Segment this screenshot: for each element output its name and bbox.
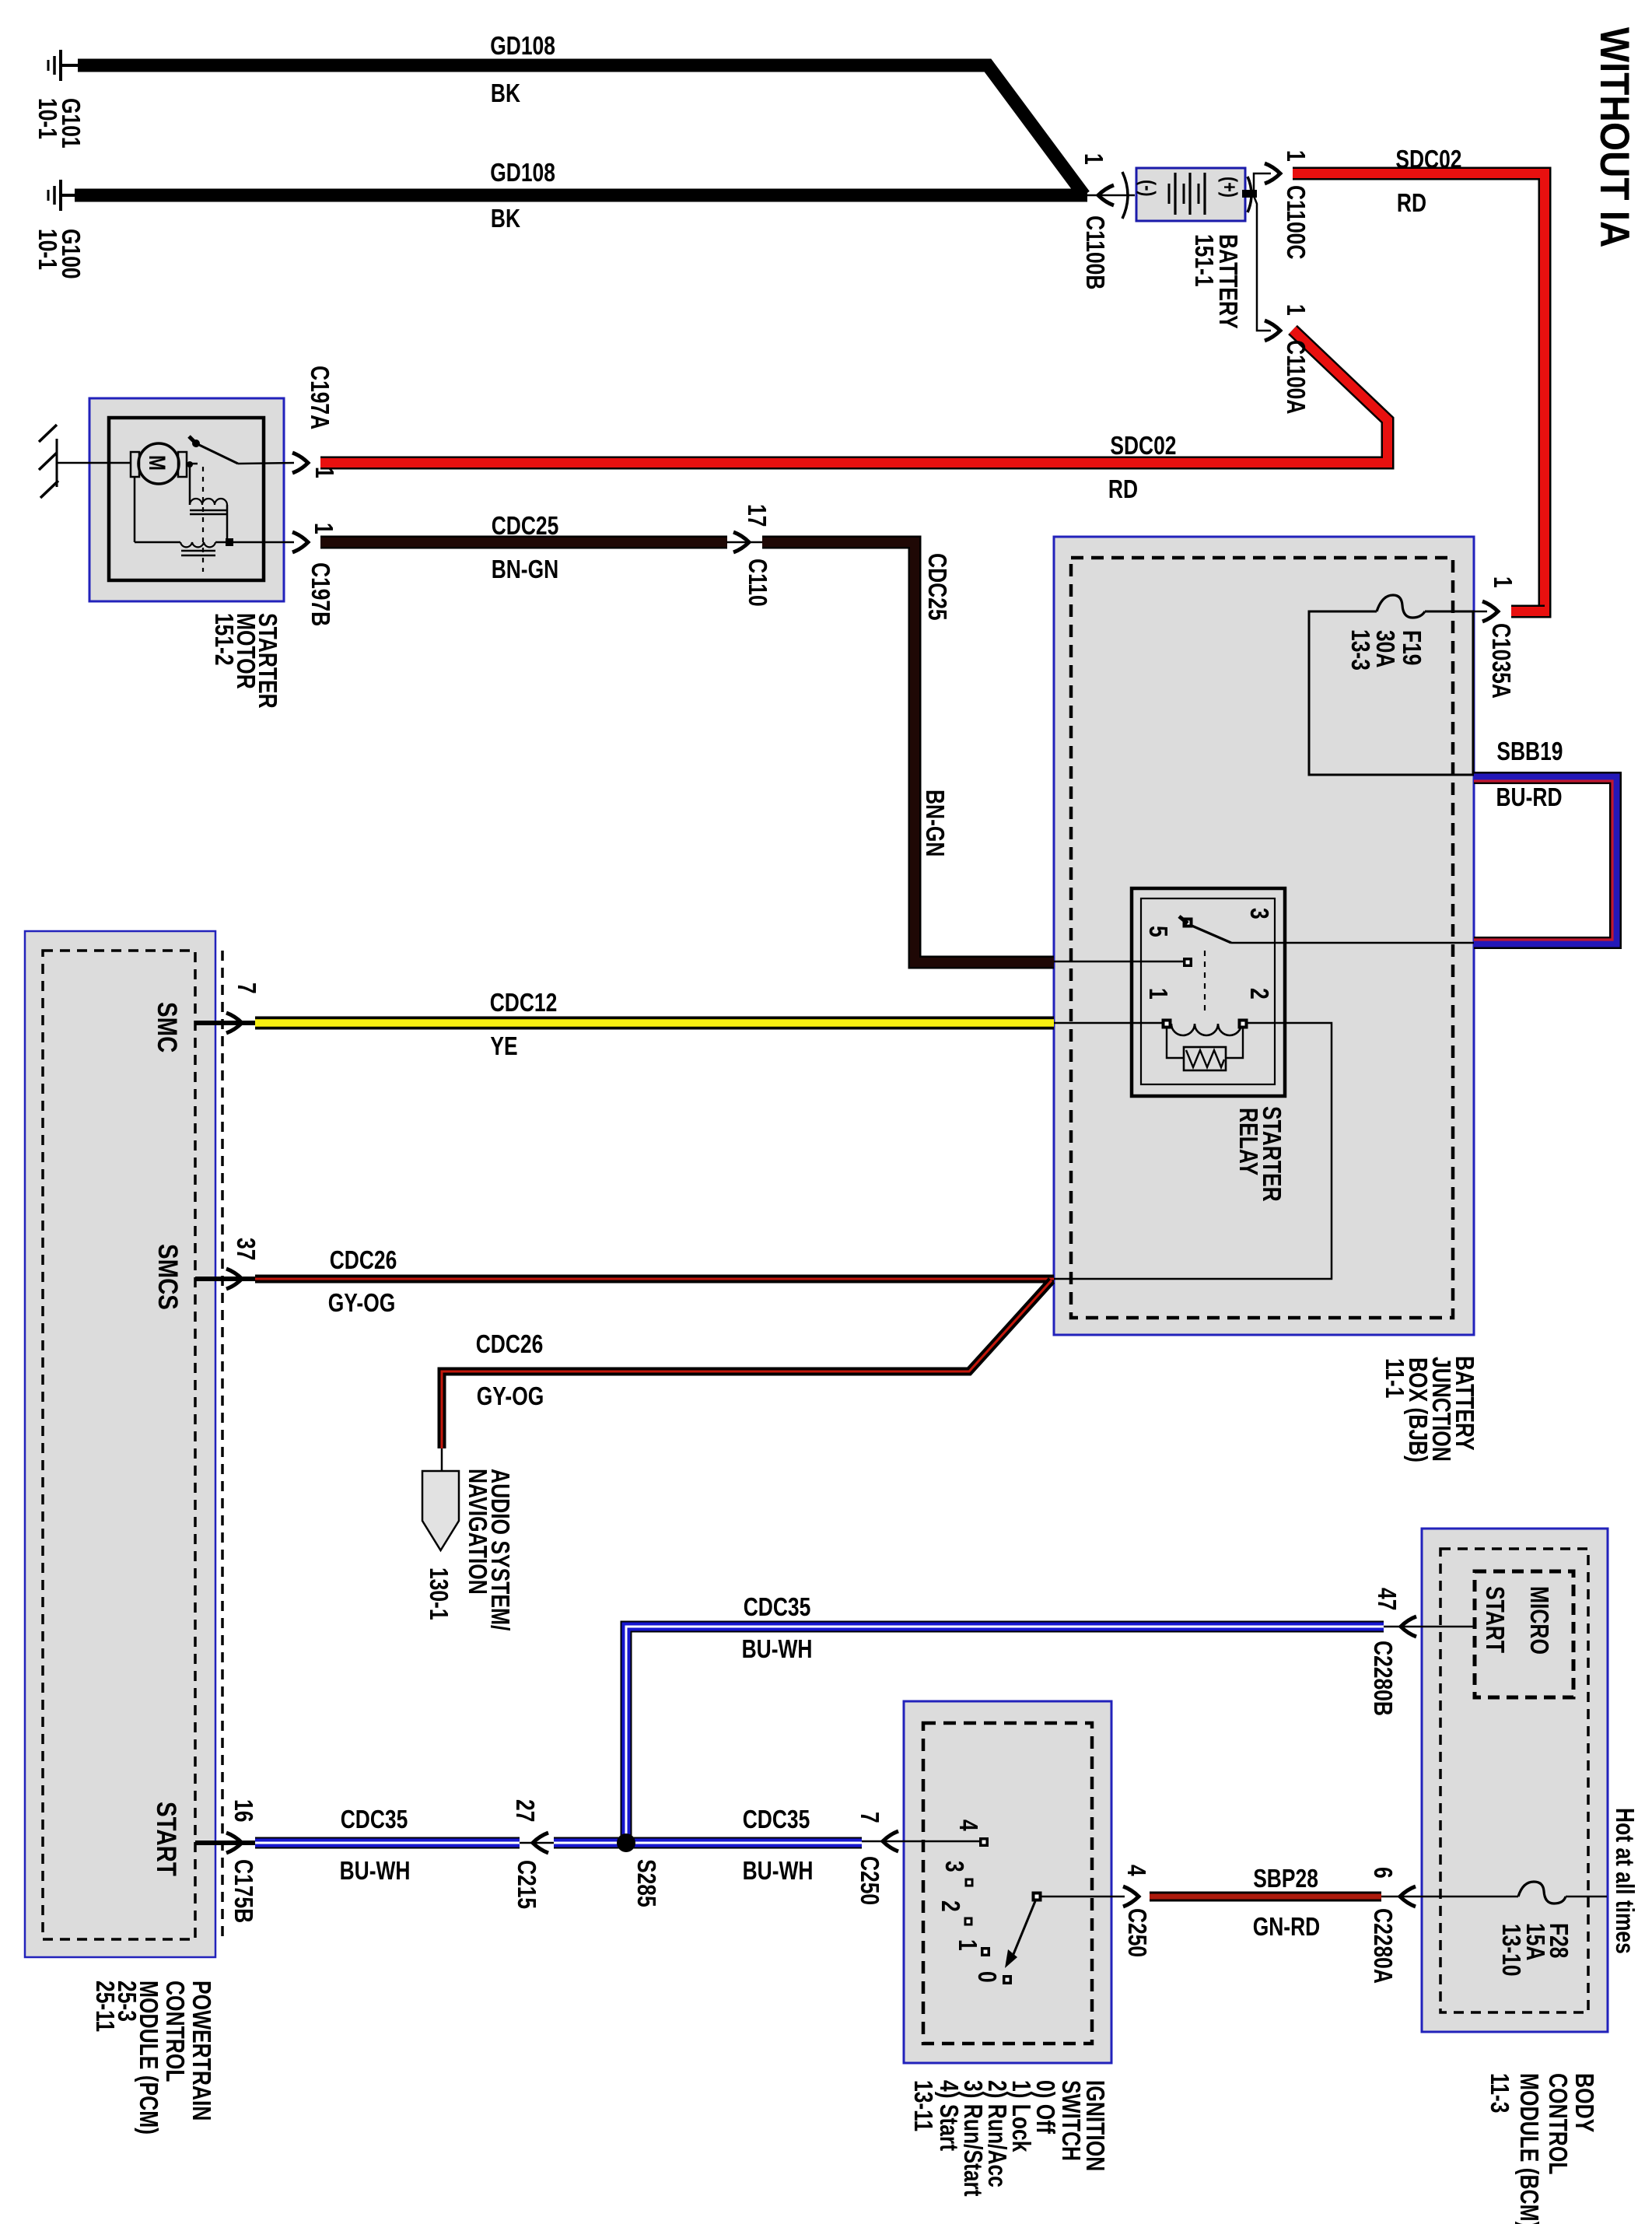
svg-text:C2280A: C2280A xyxy=(1369,1908,1398,1984)
svg-text:151-2: 151-2 xyxy=(210,613,239,666)
svg-text:MICRO: MICRO xyxy=(1525,1586,1554,1655)
svg-text:2: 2 xyxy=(936,1900,965,1912)
svg-text:START: START xyxy=(151,1802,181,1876)
svg-text:C1035A: C1035A xyxy=(1487,623,1516,699)
svg-text:WITHOUT IA: WITHOUT IA xyxy=(1591,27,1637,248)
svg-text:C1100A: C1100A xyxy=(1282,340,1311,414)
svg-text:(-): (-) xyxy=(1136,180,1160,197)
svg-text:4: 4 xyxy=(954,1819,983,1831)
svg-text:1: 1 xyxy=(1282,304,1311,316)
svg-text:27: 27 xyxy=(511,1799,540,1822)
svg-text:47: 47 xyxy=(1373,1588,1402,1610)
svg-text:25-11: 25-11 xyxy=(91,1981,120,2032)
svg-text:4: 4 xyxy=(1122,1865,1151,1876)
svg-text:C215: C215 xyxy=(513,1860,541,1909)
svg-text:YE: YE xyxy=(490,1031,517,1060)
svg-text:Hot at all times: Hot at all times xyxy=(1611,1808,1640,1954)
svg-text:13-3: 13-3 xyxy=(1346,629,1375,671)
svg-text:37: 37 xyxy=(232,1238,261,1260)
svg-text:13-11: 13-11 xyxy=(909,2080,938,2131)
svg-text:16: 16 xyxy=(229,1799,258,1822)
svg-text:1: 1 xyxy=(1080,153,1108,165)
svg-text:C197A: C197A xyxy=(306,366,334,429)
svg-text:CDC25: CDC25 xyxy=(923,553,952,621)
svg-text:3: 3 xyxy=(1245,908,1274,919)
svg-text:CDC26: CDC26 xyxy=(330,1245,397,1274)
svg-text:RD: RD xyxy=(1108,475,1138,503)
svg-text:7: 7 xyxy=(856,1812,884,1823)
svg-text:BU-WH: BU-WH xyxy=(340,1856,411,1885)
svg-text:0: 0 xyxy=(973,1971,1002,1983)
svg-text:CONTROL: CONTROL xyxy=(161,1981,190,2082)
svg-text:START: START xyxy=(1481,1586,1510,1653)
svg-text:C175B: C175B xyxy=(229,1859,258,1923)
svg-text:CDC26: CDC26 xyxy=(476,1329,544,1358)
svg-text:(+): (+) xyxy=(1218,177,1241,198)
svg-text:1: 1 xyxy=(1489,576,1517,588)
svg-text:5: 5 xyxy=(1144,926,1173,937)
svg-text:SBB19: SBB19 xyxy=(1496,737,1563,765)
svg-text:CDC35: CDC35 xyxy=(744,1592,811,1621)
svg-text:SBP28: SBP28 xyxy=(1253,1864,1318,1893)
svg-text:SDC02: SDC02 xyxy=(1395,145,1461,173)
svg-text:C197B: C197B xyxy=(306,562,335,626)
svg-text:6: 6 xyxy=(1369,1867,1398,1879)
svg-text:SWITCH: SWITCH xyxy=(1057,2080,1086,2161)
svg-text:BN-GN: BN-GN xyxy=(492,555,559,583)
svg-text:GY-OG: GY-OG xyxy=(328,1288,396,1317)
svg-text:10-1: 10-1 xyxy=(33,98,62,139)
svg-text:SMC: SMC xyxy=(152,1002,182,1052)
svg-text:130-1: 130-1 xyxy=(425,1567,453,1620)
svg-text:151-1: 151-1 xyxy=(1190,234,1219,287)
svg-text:GY-OG: GY-OG xyxy=(477,1382,544,1410)
svg-text:BODY: BODY xyxy=(1570,2073,1599,2132)
svg-text:S285: S285 xyxy=(632,1859,661,1907)
svg-text:SDC02: SDC02 xyxy=(1110,431,1176,460)
svg-text:BK: BK xyxy=(491,204,520,233)
svg-text:CDC12: CDC12 xyxy=(490,988,558,1017)
svg-text:CDC35: CDC35 xyxy=(743,1805,810,1833)
svg-text:1: 1 xyxy=(1282,150,1311,162)
svg-text:4) Start: 4) Start xyxy=(935,2080,964,2151)
svg-text:SMCS: SMCS xyxy=(152,1244,183,1310)
svg-text:CONTROL: CONTROL xyxy=(1544,2073,1573,2175)
svg-text:BK: BK xyxy=(491,79,520,107)
svg-text:1: 1 xyxy=(1144,988,1173,1000)
svg-text:F19: F19 xyxy=(1398,630,1426,666)
svg-text:1: 1 xyxy=(954,1939,982,1951)
svg-text:11-3: 11-3 xyxy=(1486,2073,1514,2113)
svg-text:BU-RD: BU-RD xyxy=(1496,783,1563,811)
svg-text:MODULE (BCM): MODULE (BCM) xyxy=(1515,2073,1544,2224)
svg-text:POWERTRAIN: POWERTRAIN xyxy=(187,1981,216,2121)
svg-text:1: 1 xyxy=(310,523,338,534)
svg-text:M: M xyxy=(144,455,170,471)
svg-text:1: 1 xyxy=(310,467,339,478)
svg-text:GD108: GD108 xyxy=(490,31,555,60)
svg-text:7: 7 xyxy=(233,982,261,994)
svg-text:RD: RD xyxy=(1397,188,1426,217)
svg-text:17: 17 xyxy=(743,504,772,527)
svg-text:C250: C250 xyxy=(1123,1908,1152,1957)
svg-text:CDC25: CDC25 xyxy=(492,511,559,540)
svg-text:10-1: 10-1 xyxy=(33,229,62,270)
svg-text:RELAY: RELAY xyxy=(1234,1108,1263,1175)
svg-text:13-10: 13-10 xyxy=(1497,1924,1526,1977)
svg-text:3: 3 xyxy=(940,1861,969,1872)
svg-text:2: 2 xyxy=(1245,988,1274,1000)
svg-text:GD108: GD108 xyxy=(490,158,555,187)
svg-text:BN-GN: BN-GN xyxy=(921,790,950,857)
svg-text:NAVIGATION: NAVIGATION xyxy=(464,1469,492,1595)
svg-text:C250: C250 xyxy=(856,1856,884,1905)
svg-text:C1100C: C1100C xyxy=(1282,185,1311,259)
svg-text:GN-RD: GN-RD xyxy=(1253,1912,1321,1941)
svg-text:C110: C110 xyxy=(744,559,772,607)
svg-text:C2280B: C2280B xyxy=(1369,1641,1398,1716)
svg-text:11-1: 11-1 xyxy=(1381,1358,1409,1398)
svg-text:BU-WH: BU-WH xyxy=(742,1634,813,1663)
svg-text:BU-WH: BU-WH xyxy=(743,1856,814,1885)
svg-text:CDC35: CDC35 xyxy=(341,1805,408,1833)
svg-text:C1100B: C1100B xyxy=(1081,215,1110,289)
